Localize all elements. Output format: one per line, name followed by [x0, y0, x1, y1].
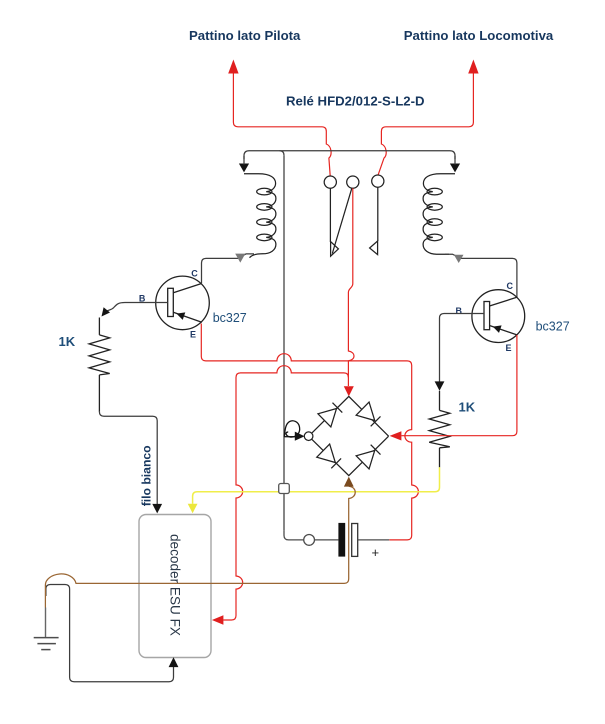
arrowhead red up (Pilota) — [228, 60, 238, 74]
relay contact pin right (NO) — [372, 175, 384, 187]
diode bridge D1-D4 edges — [312, 396, 389, 475]
transistor Q1 collector wire entering circle — [173, 284, 201, 293]
wire right coil bottom to right transistor collector — [445, 254, 517, 297]
wire brown: bridge bottom to ground — [45, 486, 355, 607]
arrowhead red left into decoder right edge — [212, 615, 224, 625]
wire Q2 base to resistor R2 — [440, 314, 485, 382]
svg-text:C: C — [191, 269, 198, 279]
wire Q1 base swoop to resistor R1 — [106, 303, 167, 312]
arrowhead red down into bridge top — [344, 386, 354, 396]
bridge left vertex terminal circle — [304, 432, 313, 441]
relay NO contact stem — [377, 187, 379, 241]
arrowhead black right into bridge left vertex — [295, 432, 305, 441]
wire red Q2 emitter to bridge right (AC) — [402, 335, 517, 436]
svg-text:E: E — [506, 343, 512, 353]
junction square node on common rail — [279, 484, 290, 494]
svg-text:1K: 1K — [59, 334, 76, 349]
transistor Q1 base bar — [168, 288, 174, 316]
arrowhead black down into decoder (filo bianco) — [152, 504, 162, 514]
wire battery plus to red riser — [358, 539, 390, 541]
transistor Q1 emitter arrow (PNP, points to base) — [177, 312, 186, 320]
battery terminal circle — [304, 535, 315, 546]
wire filo bianco: R1 bottom to decoder top — [99, 412, 157, 505]
battery BT1 negative plate — [338, 523, 345, 557]
gray flow arrow on right coil bottom wire — [454, 255, 464, 263]
decoder ESU FX box — [139, 515, 211, 658]
battery BT1 positive plate — [352, 524, 358, 557]
wire circle to battery negative plate — [315, 539, 339, 541]
transistor Q2 emitter diagonal — [490, 326, 517, 335]
diode D3 (left to bottom) — [317, 444, 343, 470]
arrowhead down into right relay coil — [450, 164, 460, 173]
transistor Q2 emitter arrow (PNP) — [493, 325, 502, 333]
svg-text:bc327: bc327 — [536, 320, 570, 334]
relay contact pin left (NC) — [324, 176, 336, 188]
wire yellow: R2 bottom to decoder top — [193, 467, 440, 504]
arrowhead red left into bridge right vertex — [390, 431, 402, 440]
ground symbol — [34, 638, 59, 650]
wire red from relay common contact down to bridge AC top — [348, 188, 354, 386]
arrowhead yellow down into decoder — [188, 504, 198, 514]
arrowhead black down into R2 — [435, 381, 445, 390]
svg-text:Relé HFD2/012-S-L2-D: Relé HFD2/012-S-L2-D — [286, 94, 425, 109]
relay NC contact open arrowhead — [331, 242, 339, 257]
svg-text:C: C — [507, 281, 514, 291]
wire black common rail (relay top to battery minus) — [283, 155, 285, 530]
diode D1 (left to top) — [318, 401, 344, 427]
gray flow arrow on left coil bottom wire — [235, 254, 245, 263]
svg-text:+: + — [372, 545, 380, 560]
wire red lower horizontal to bridge top / decoder — [223, 366, 348, 620]
diode D4 (bottom to right) — [356, 443, 382, 469]
relay K1 top supply wire — [244, 151, 455, 159]
relay contact pin common — [347, 176, 359, 188]
diode D2 (top to right) — [356, 402, 382, 428]
wire black curl branch into bridge left (AC) — [284, 421, 299, 437]
wire red feed to Pattino lato Locomotiva (from relay NO contact) — [378, 73, 473, 175]
svg-text:Pattino lato Pilota: Pattino lato Pilota — [189, 28, 301, 43]
relay NO contact open arrowhead — [370, 241, 378, 255]
arrowhead red up (Locomotiva) — [468, 60, 478, 74]
wire gray to ground — [45, 608, 47, 638]
arrowhead down into left relay coil — [239, 164, 249, 173]
transistor Q1 bc327 circle — [156, 276, 210, 330]
wire black common rail bottom corner to battery circle — [284, 530, 304, 540]
transistor Q2 base bar — [484, 302, 490, 330]
svg-text:E: E — [190, 330, 196, 340]
relay coil right L2 — [423, 174, 455, 254]
relay NC contact stem — [329, 188, 331, 242]
svg-text:1K: 1K — [459, 400, 476, 415]
arrowhead black up into decoder bottom — [169, 657, 179, 667]
svg-text:bc327: bc327 — [213, 311, 247, 325]
svg-text:Pattino lato Locomotiva: Pattino lato Locomotiva — [404, 28, 554, 43]
arrowhead black down-left into R1 — [102, 307, 111, 316]
wire red Q1 emitter to battery plus (via right vertical) — [201, 324, 418, 540]
wire left coil bottom to left transistor collector — [202, 254, 255, 283]
svg-text:filo bianco: filo bianco — [139, 445, 153, 506]
relay switch arm from common contact — [332, 188, 352, 253]
resistor R2 1K — [429, 391, 450, 468]
relay coil left L1 — [244, 174, 276, 258]
wire black decoder bottom to ground — [46, 585, 174, 682]
svg-text:decoder ESU FX: decoder ESU FX — [168, 534, 183, 636]
svg-text:B: B — [456, 306, 463, 316]
arrowhead brown up into bridge bottom — [344, 477, 354, 487]
transistor Q2 bc327 circle — [472, 290, 525, 343]
transistor Q1 emitter diagonal — [173, 312, 202, 322]
wire red feed to Pattino lato Pilota (from relay NC contact) — [233, 73, 331, 176]
transistor Q2 collector diagonal — [490, 297, 517, 306]
resistor R1 1K — [89, 318, 110, 412]
